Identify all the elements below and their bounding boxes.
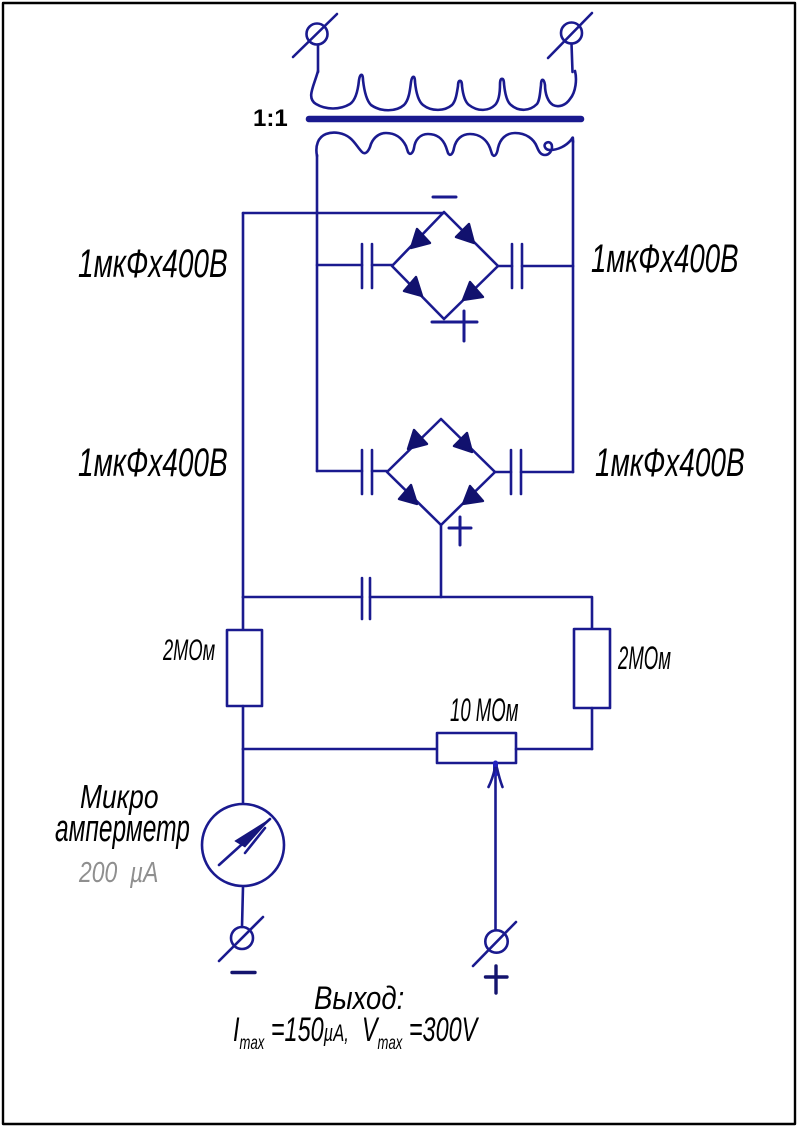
wire bottom rail left bbox=[243, 748, 437, 751]
label ammeter range bbox=[79, 857, 158, 890]
diode D3 arrow bbox=[404, 277, 422, 296]
capacitor C4 bbox=[495, 450, 573, 494]
resistor R1 bbox=[227, 630, 262, 706]
label output ratings bbox=[233, 1011, 477, 1055]
wire ammeter to output minus terminal bbox=[242, 887, 243, 927]
wire lead from left terminal bbox=[317, 45, 320, 73]
capacitor C3 bbox=[317, 450, 387, 494]
label plus of bridge B2 bbox=[449, 517, 471, 545]
wire below resistor R1 bbox=[242, 706, 245, 749]
resistor R3 potentiometer body bbox=[437, 733, 516, 763]
terminal input right bbox=[548, 13, 592, 58]
diode bridge B1 diamond bbox=[392, 212, 498, 319]
label plus of bridge B1 bbox=[432, 311, 477, 341]
label minus of bridge B1 bbox=[433, 196, 456, 199]
label output title bbox=[314, 980, 404, 1017]
diode D5 arrow bbox=[408, 430, 427, 449]
diode D8 arrow bbox=[463, 486, 483, 504]
transformer secondary winding bbox=[316, 133, 573, 156]
diode D7 arrow bbox=[399, 485, 417, 504]
label transformer ratio 1:1 bbox=[253, 105, 288, 133]
wire secondary right lead down bbox=[572, 141, 575, 472]
terminal input left bbox=[293, 14, 337, 57]
terminal output minus bbox=[219, 917, 263, 961]
resistor R2 bbox=[574, 629, 610, 708]
node junction left bus capacitor row bbox=[242, 597, 245, 630]
ammeter M1 bbox=[202, 804, 284, 886]
diode bridge B2 diamond bbox=[387, 419, 495, 525]
label minus of output bbox=[232, 971, 255, 974]
label capacitor value top-right bbox=[591, 237, 739, 282]
wire bus row left segment bbox=[243, 596, 362, 599]
diode D1 arrow bbox=[411, 229, 430, 248]
transformer primary winding bbox=[311, 71, 576, 110]
label capacitor value bottom-right bbox=[595, 441, 745, 486]
wire lead from right terminal bbox=[572, 44, 573, 73]
capacitor C1 bbox=[317, 244, 392, 288]
wire left bus vertical bbox=[242, 213, 245, 597]
label resistor R2 value bbox=[618, 640, 671, 677]
capacitor C5 bbox=[362, 578, 370, 619]
diode D6 arrow bbox=[454, 433, 472, 452]
wire bottom rail right bbox=[516, 748, 592, 751]
wire left bus to ammeter bbox=[242, 749, 245, 806]
wire bus row right segment bbox=[370, 597, 592, 629]
wire below resistor R2 bbox=[591, 708, 594, 749]
label ammeter line2 bbox=[55, 808, 190, 851]
diode D2 arrow bbox=[456, 224, 474, 243]
label capacitor value top-left bbox=[78, 242, 228, 287]
terminal output plus bbox=[473, 922, 516, 966]
label capacitor value bottom-left bbox=[78, 441, 228, 486]
capacitor C2 bbox=[498, 244, 573, 288]
label ammeter line1 bbox=[80, 778, 159, 816]
label resistor R1 value bbox=[163, 634, 215, 668]
diode D4 arrow bbox=[463, 282, 483, 300]
transformer core bar bbox=[309, 116, 581, 123]
label resistor R3 value bbox=[450, 692, 518, 729]
wire bridge1 minus rail to left bus bbox=[243, 212, 444, 215]
wire bridge B2 output stub bbox=[440, 525, 443, 597]
wire secondary left lead down bbox=[316, 155, 319, 471]
label plus of output bbox=[486, 966, 508, 993]
potentiometer wiper arrow bbox=[489, 763, 503, 929]
